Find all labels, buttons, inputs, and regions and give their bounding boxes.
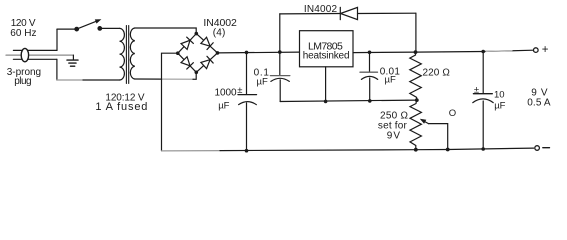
junction: output rail / R1 / D5 bbox=[414, 50, 418, 54]
diode D1 (bridge top-left) bbox=[178, 34, 197, 54]
svg-text:µF: µF bbox=[494, 101, 505, 112]
diode D4 (bridge bottom-right) bbox=[196, 53, 217, 72]
svg-text:+: + bbox=[542, 44, 549, 56]
wire: secondary bottom to bridge bottom node bbox=[135, 72, 196, 79]
svg-text:1000: 1000 bbox=[215, 87, 237, 98]
diode D2 (bridge top-right) bbox=[196, 34, 217, 53]
capacitor C1 1000 uF bbox=[238, 52, 257, 150]
3-prong plug P1 bbox=[6, 48, 73, 61]
junction: input rail / C1 bbox=[245, 51, 249, 55]
svg-text:±: ± bbox=[237, 85, 242, 96]
svg-text:1 A fused: 1 A fused bbox=[95, 101, 147, 113]
junction: output rail / C4 bbox=[481, 50, 485, 54]
wire: bridge negative down to ground rail bbox=[162, 53, 178, 151]
label: IN4002 (4) bridge bbox=[203, 17, 237, 39]
junction: ground rail / C1 bbox=[245, 149, 249, 153]
ground (AC safety ground) bbox=[67, 55, 78, 66]
svg-text:0.5 A: 0.5 A bbox=[527, 98, 551, 109]
node: bridge bottom (AC) bbox=[195, 71, 199, 75]
output terminal + bbox=[534, 44, 549, 56]
faded segment of output rail bbox=[486, 50, 512, 53]
label: 3-prong plug bbox=[7, 67, 41, 87]
capacitor C2 0.1 uF bbox=[270, 52, 289, 101]
svg-text:heatsinked: heatsinked bbox=[303, 51, 350, 62]
wire: bridge positive to regulator input bbox=[218, 51, 300, 54]
node: bridge top (AC) bbox=[195, 32, 199, 36]
potentiometer R2 250 ohm bbox=[410, 100, 421, 150]
transformer T1 primary winding bbox=[120, 28, 125, 80]
wire: secondary top to bridge top node bbox=[135, 28, 196, 34]
transformer T1 core bbox=[126, 26, 128, 84]
junction: output rail / C3 bbox=[368, 51, 372, 55]
svg-text:10: 10 bbox=[494, 90, 505, 101]
junction: ground rail / C4 bbox=[481, 147, 485, 151]
junction: R1 / R2 / gnd net bbox=[415, 98, 419, 102]
ground rail (negative bus) bbox=[162, 148, 534, 151]
junction: ground rail / R2 bbox=[414, 148, 418, 152]
label: 0.1 uF bbox=[254, 67, 270, 87]
svg-text:220 Ω: 220 Ω bbox=[423, 67, 451, 78]
wire: hot lead up to switch bbox=[56, 29, 58, 50]
label: 9 V 0.5 A bbox=[527, 87, 551, 108]
node: bridge right (plus) bbox=[216, 51, 220, 55]
transformer T1 secondary winding bbox=[130, 28, 134, 79]
svg-text:µF: µF bbox=[218, 101, 229, 112]
capacitor C4 10 uF bbox=[473, 52, 493, 150]
diode D5 IN4002 (protection, over regulator) bbox=[280, 7, 416, 52]
label: 1000 uF + bbox=[215, 85, 243, 112]
junction: gnd net / C3 bbox=[368, 99, 372, 103]
svg-text:±: ± bbox=[474, 84, 479, 95]
label: 120:12 V 1 A fused bbox=[95, 92, 147, 113]
wire: neutral lead down and right to primary bottom bbox=[57, 59, 120, 80]
switch S1 bbox=[75, 19, 102, 31]
label: 0.01 uF bbox=[380, 66, 401, 85]
svg-text:µF: µF bbox=[257, 76, 268, 87]
wire: ground-pin net (C2 bottom to pot junction) bbox=[280, 100, 417, 101]
wire: regulator output rail bbox=[353, 50, 534, 52]
svg-text:µF: µF bbox=[385, 74, 396, 85]
label: 120 V 60 Hz bbox=[10, 18, 36, 39]
wire: to switch left contact bbox=[57, 28, 77, 30]
svg-text:O: O bbox=[449, 108, 456, 119]
label: 10 uF + bbox=[474, 84, 506, 111]
wire: switch to transformer primary top bbox=[100, 27, 120, 29]
diode D3 (bridge bottom-left) bbox=[178, 53, 197, 72]
resistor R1 220 ohm bbox=[410, 52, 422, 100]
svg-text:IN4002: IN4002 bbox=[304, 4, 338, 15]
node: bridge left (minus) bbox=[176, 51, 180, 55]
svg-text:60 Hz: 60 Hz bbox=[10, 28, 36, 39]
svg-text:(4): (4) bbox=[213, 28, 226, 39]
label: 250 ohm set for 9 V bbox=[378, 111, 409, 142]
junction: ground rail / wiper bbox=[446, 148, 450, 152]
svg-text:plug: plug bbox=[14, 76, 31, 87]
output terminal - bbox=[535, 146, 550, 151]
junction: input rail / C2 / D5 bbox=[278, 50, 282, 54]
svg-text:9 V: 9 V bbox=[387, 131, 401, 142]
regulator U1 LM7805 bbox=[300, 31, 354, 67]
potentiometer wiper arrow bbox=[420, 119, 448, 150]
junction: gnd net / regulator pin bbox=[324, 100, 328, 104]
capacitor C3 0.01 uF bbox=[360, 52, 378, 101]
wire: regulator ground pin bbox=[325, 67, 327, 102]
